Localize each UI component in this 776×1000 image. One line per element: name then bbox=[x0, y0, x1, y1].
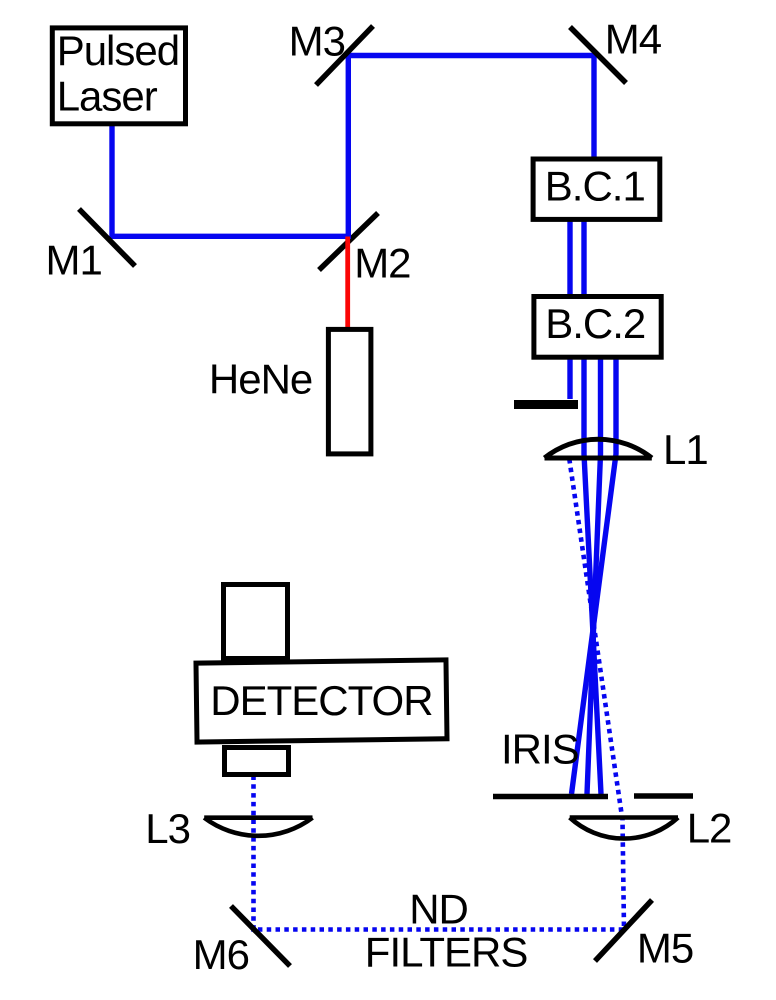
box Pulsed Laser bbox=[52, 28, 185, 124]
svg-text:L1: L1 bbox=[663, 426, 708, 473]
svg-text:ND: ND bbox=[409, 885, 468, 932]
svg-text:FILTERS: FILTERS bbox=[365, 929, 528, 976]
box DETECTOR main bbox=[196, 660, 447, 742]
svg-text:HeNe: HeNe bbox=[209, 356, 312, 403]
beam stop black bar bbox=[514, 400, 578, 409]
svg-text:L3: L3 bbox=[145, 805, 190, 852]
box detector top port bbox=[224, 585, 288, 659]
box B.C.2 bbox=[534, 297, 661, 358]
svg-text:M1: M1 bbox=[46, 236, 102, 283]
mirror M4 bbox=[570, 27, 626, 83]
svg-text:IRIS: IRIS bbox=[501, 726, 579, 773]
box B.C.1 bbox=[533, 159, 660, 219]
wire blue beam path: Pulsed Laser -> M1 -> M2 -> M3 -> M4 -> B.C.1 bbox=[112, 56, 594, 237]
box HeNe laser bbox=[328, 329, 371, 454]
mirror M5 bbox=[595, 900, 652, 961]
svg-text:B.C.2: B.C.2 bbox=[545, 300, 645, 347]
svg-text:M6: M6 bbox=[193, 931, 249, 978]
svg-text:M4: M4 bbox=[605, 15, 662, 62]
mirror M1 bbox=[79, 209, 135, 266]
mirror M6 bbox=[231, 906, 290, 966]
iris right blade bbox=[634, 793, 693, 799]
svg-text:M2: M2 bbox=[354, 240, 410, 287]
mirror M3 bbox=[316, 26, 373, 85]
lens L1 (plano-convex, flat bottom) bbox=[545, 439, 652, 458]
wire four beams below B.C.2 bbox=[567, 358, 572, 399]
mirror M2 bbox=[319, 213, 378, 270]
wire two beams B.C.1 -> B.C.2 bbox=[567, 221, 572, 295]
lens L3 (flat top, convex bottom) bbox=[204, 818, 312, 836]
svg-text:M3: M3 bbox=[289, 17, 345, 64]
svg-text:M5: M5 bbox=[637, 925, 693, 972]
svg-text:L2: L2 bbox=[687, 805, 732, 852]
lens L2 (flat top, convex bottom) bbox=[570, 818, 678, 839]
svg-text:Laser: Laser bbox=[57, 72, 158, 119]
wire dotted alignment beam: L1 -> focus -> iris gap -> L2 -> M5 -> M6 -> detector bbox=[254, 459, 625, 930]
svg-text:Pulsed: Pulsed bbox=[57, 27, 179, 74]
box detector bottom port bbox=[225, 748, 289, 775]
iris left blade bbox=[493, 794, 608, 800]
svg-text:DETECTOR: DETECTOR bbox=[210, 677, 432, 724]
svg-text:B.C.1: B.C.1 bbox=[545, 162, 645, 209]
wire red beam: M2 -> HeNe bbox=[345, 237, 350, 330]
